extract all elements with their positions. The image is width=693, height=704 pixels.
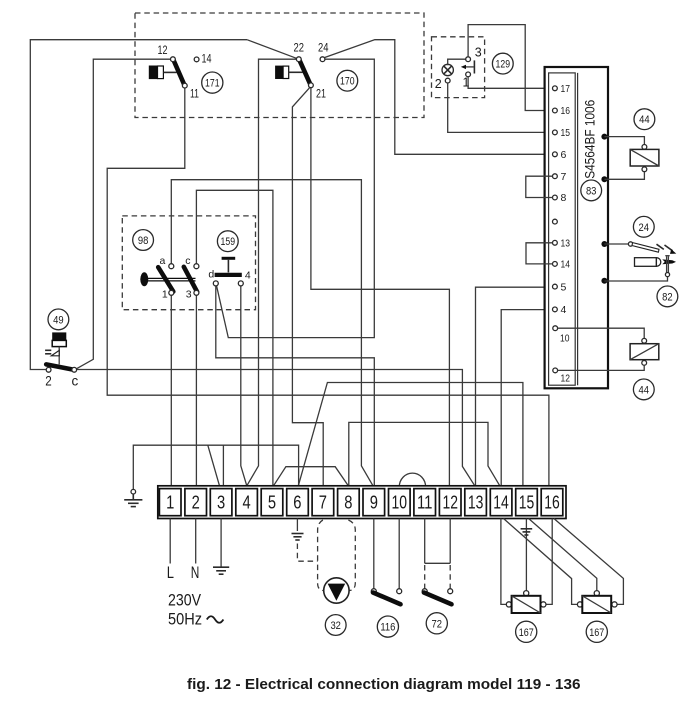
svg-text:5: 5 [561, 281, 567, 293]
wire: contact 21 diagonal branch down to terminal 7 [292, 88, 323, 486]
wire: diagonal from trunk to relay contact 22 [247, 40, 299, 60]
svg-text:14: 14 [202, 54, 212, 66]
bracket pins 13-14 [526, 243, 553, 264]
pump 32 [324, 578, 349, 603]
ground symbol at terminal 3 riser [124, 489, 142, 506]
svg-text:98: 98 [138, 235, 149, 247]
wire: 49 output run to terminal 13 [77, 370, 475, 486]
dashed enclosure box 129 [432, 37, 485, 98]
svg-text:12: 12 [442, 492, 458, 513]
svg-text:2: 2 [192, 492, 200, 513]
controller pin 14 [553, 259, 571, 271]
wire: terminal 16 diagonal to relay 167b right [554, 519, 624, 605]
svg-text:6: 6 [561, 149, 567, 161]
wire: terminal 8 to terminal 14 link [349, 422, 500, 485]
svg-text:16: 16 [544, 492, 560, 513]
svg-text:10: 10 [560, 333, 570, 345]
svg-text:50Hz: 50Hz [168, 610, 202, 629]
svg-text:7: 7 [319, 492, 327, 513]
relay switch 170 [275, 57, 325, 88]
bracket pins 7-8 [526, 176, 553, 197]
circled 83 [581, 180, 602, 201]
svg-text:9: 9 [370, 492, 378, 513]
terminal numbers [166, 492, 560, 513]
thermostat 49 [45, 332, 77, 372]
wire: contact 24 diagonal up to controller pin 6 [325, 40, 553, 155]
svg-text:83: 83 [586, 185, 597, 197]
svg-text:17: 17 [561, 83, 571, 95]
wire: switch 98 contact 1 down to terminal 1 [170, 295, 172, 486]
svg-text:4: 4 [245, 269, 251, 281]
svg-text:230V: 230V [168, 591, 202, 610]
circled 24 (electrode) [633, 216, 654, 237]
svg-text:13: 13 [561, 238, 571, 250]
wire: switch 98 contact c up, bridge right, down into terminal 5 [196, 190, 273, 486]
svg-text:24: 24 [639, 222, 650, 234]
wire + earth: terminal 15 down to relay 167a top [525, 519, 527, 591]
svg-text:8: 8 [344, 492, 352, 513]
wire: terminal 5 to terminal 8 link [274, 467, 349, 486]
switch 159 [213, 258, 243, 286]
svg-text:1: 1 [162, 289, 168, 301]
svg-text:N: N [191, 563, 200, 582]
relay switch 171 [149, 57, 199, 88]
wire: switch 98 contact 3 down to terminal 2 [195, 295, 197, 486]
svg-text:3: 3 [186, 289, 192, 301]
AC tilde symbol [207, 616, 224, 623]
controller pin 5 [553, 281, 567, 293]
circled 167 (left) [516, 621, 537, 642]
wire: controller pin 4 down to terminal 14 [501, 310, 552, 486]
circled 116 [377, 616, 398, 637]
wire: switch 159 contact d straight down then right, down to terminal 9 [216, 286, 374, 486]
wire: contact 24 horizontal then down to junction with d diagonal [217, 59, 375, 337]
svg-text:8: 8 [561, 192, 567, 204]
svg-text:fig. 12 - Electrical connectio: fig. 12 - Electrical connection diagram … [187, 677, 581, 693]
circled 167 (right) [586, 621, 607, 642]
svg-text:3: 3 [217, 492, 225, 513]
wire: L feed below terminal 1 [169, 519, 171, 564]
svg-text:6: 6 [293, 492, 301, 513]
wire: contact 11 down-left-down to terminal 16 [107, 88, 549, 486]
dashed pump leads from terminals 7-8 [318, 520, 324, 591]
wire: 129 contact 2 (lamp) to controller pin 15 [448, 83, 553, 132]
svg-text:d: d [208, 269, 214, 281]
wire: contact 21 straight down, right to controller pin 5 [311, 88, 450, 486]
svg-text:15: 15 [519, 492, 535, 513]
circled 170 [337, 70, 358, 91]
svg-text:170: 170 [340, 76, 355, 88]
dashed enclosure box (relays 171/170 group) [135, 13, 424, 118]
svg-text:82: 82 [662, 291, 673, 303]
wire: left trunk from corner (30,40) to switch 49 contact 2 [30, 40, 247, 370]
dashed link from earth to pump enclosure [297, 544, 317, 562]
svg-text:167: 167 [589, 627, 604, 639]
controller pin 15 [553, 127, 571, 139]
controller box S4564BF [545, 67, 608, 388]
svg-text:72: 72 [432, 618, 443, 630]
svg-text:2: 2 [435, 77, 442, 91]
wire: 129 contact 1 to controller pin 17 [468, 77, 552, 89]
svg-text:1: 1 [166, 492, 174, 513]
svg-text:44: 44 [639, 384, 650, 396]
junction dots on controller right edge [601, 134, 607, 140]
svg-text:c: c [185, 255, 190, 267]
controller pin 10 [553, 326, 570, 345]
controller pin 4 [553, 304, 567, 316]
svg-text:12: 12 [561, 373, 571, 385]
controller pin 12 [553, 368, 570, 385]
controller pin 16 [553, 105, 571, 117]
svg-text:7: 7 [561, 171, 567, 183]
svg-text:S4564BF 1006: S4564BF 1006 [582, 100, 598, 179]
svg-text:22: 22 [294, 43, 305, 55]
svg-text:159: 159 [221, 236, 236, 248]
wire: branch diagonal into terminal 3 [208, 445, 220, 486]
relay 167b [577, 591, 617, 613]
controller pin 17 [553, 83, 571, 95]
relay 167a [506, 591, 546, 613]
circled 171 [202, 72, 223, 93]
wire: ground riser to terminal 3 and terminal 6 link [133, 445, 298, 489]
svg-text:24: 24 [318, 43, 329, 55]
circled 44 (top) [634, 109, 655, 130]
svg-text:14: 14 [561, 259, 571, 271]
svg-text:5: 5 [268, 492, 276, 513]
svg-text:3: 3 [475, 46, 482, 60]
svg-text:129: 129 [496, 59, 511, 71]
svg-text:10: 10 [391, 492, 407, 513]
wire: terminal 6 diagonal up to run into terminal 15 [298, 383, 523, 486]
circled 72 [426, 613, 447, 634]
jumper + switch 72 below terminals 11-12 [422, 519, 453, 605]
svg-text:a: a [160, 255, 166, 267]
terminal strip outer box [158, 486, 566, 519]
svg-text:12: 12 [158, 45, 168, 57]
circled 82 [657, 286, 678, 307]
relay 44 bottom right [558, 328, 659, 370]
wire + earth below terminal 3 [220, 519, 222, 568]
wire: 129 contact 3 to controller pin 16 [468, 25, 552, 111]
svg-text:16: 16 [561, 105, 571, 117]
wire: branch vertical into terminal 3 [222, 445, 224, 486]
svg-text:171: 171 [205, 78, 220, 90]
circled 129 [492, 53, 513, 74]
svg-text:21: 21 [316, 89, 326, 101]
wire: terminal 15 diagonal to relay 167b top [529, 519, 597, 591]
main switch 98 blades [140, 264, 199, 296]
svg-text:15: 15 [561, 127, 571, 139]
wire: terminal 13 riser to controller pin 5 [476, 287, 553, 486]
circled 32 [325, 615, 346, 636]
svg-text:c: c [72, 374, 79, 389]
wire: contact 22 left and down into terminal 4 (right V branch) [247, 59, 297, 486]
svg-text:49: 49 [53, 314, 64, 326]
wire: N feed below terminal 2 [195, 519, 197, 564]
svg-text:14: 14 [493, 492, 509, 513]
circled 49 [48, 309, 69, 330]
svg-text:2: 2 [45, 374, 52, 389]
svg-text:4: 4 [243, 492, 251, 513]
terminal cells 1-16 [159, 489, 562, 516]
switch 116 below terminals 9-10 [371, 519, 401, 605]
svg-text:11: 11 [190, 89, 199, 101]
controller pin 6 [553, 149, 567, 161]
wire: terminal 16 down to relay 167a right [546, 519, 552, 605]
controller pin blank [553, 219, 558, 224]
svg-text:13: 13 [468, 492, 484, 513]
circled 159 [217, 231, 238, 252]
controller pin 7 [553, 171, 567, 183]
circled 44 (bottom) [633, 379, 654, 400]
lamp and button 129 [442, 57, 474, 83]
dashed enclosure box (switch 98/159 group) [122, 216, 255, 310]
svg-text:4: 4 [561, 304, 567, 316]
wire: trunk from contact 12 down to diagonal into 49 contact c [76, 59, 171, 369]
svg-text:167: 167 [519, 627, 534, 639]
wire: terminal 14 diagonal to relay 167b left [504, 519, 578, 605]
wire: switch 159 contact 4 down into terminal 4 (left V branch) [241, 286, 247, 486]
ignition electrode 24 [604, 242, 676, 254]
wire: switch 98 contact a up, bridge right, down, into terminal 9 [171, 180, 373, 486]
flame sensor electrode 82 [604, 256, 676, 281]
svg-text:116: 116 [380, 622, 395, 634]
controller pin 8 [553, 192, 567, 204]
svg-text:44: 44 [639, 114, 650, 126]
relay 44 top right [604, 137, 659, 180]
svg-text:L: L [167, 563, 174, 582]
circled 98 [133, 230, 154, 251]
controller pin 13 [553, 238, 571, 250]
wire: jumper arc over terminals 10-11 [399, 473, 425, 487]
wire: terminal 14 down to relay 167a left [501, 519, 506, 605]
svg-text:32: 32 [330, 620, 341, 632]
earth below terminal 6 [296, 519, 298, 532]
svg-text:11: 11 [417, 492, 433, 513]
